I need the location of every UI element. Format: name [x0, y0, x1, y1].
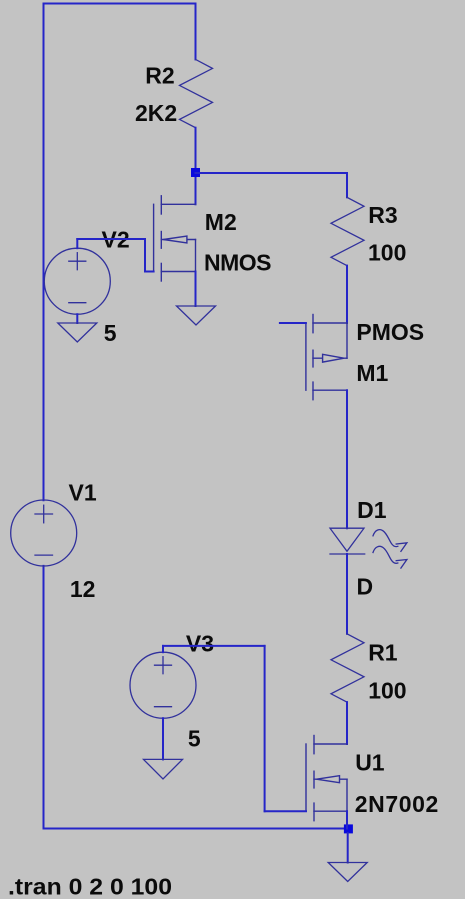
M1 source stub	[313, 322, 347, 324]
voltage source V3	[130, 652, 196, 718]
M1 channel segments	[312, 315, 314, 333]
svg-text:V1: V1	[69, 480, 97, 506]
ground under M2	[177, 306, 216, 325]
svg-text:PMOS: PMOS	[356, 319, 424, 345]
svg-text:U1: U1	[355, 749, 385, 775]
U1 source stub	[314, 810, 347, 812]
U1 body-source rail	[346, 779, 348, 811]
M2 drain stub	[161, 203, 195, 205]
svg-text:2K2: 2K2	[135, 100, 177, 126]
wire V3 top vertical	[162, 646, 164, 652]
voltage source V1	[11, 500, 77, 566]
svg-text:2N7002: 2N7002	[355, 791, 439, 817]
svg-text:100: 100	[368, 240, 406, 266]
svg-text:NMOS: NMOS	[204, 249, 272, 275]
wire V3 bottom to ground	[162, 718, 164, 759]
M2 channel segments	[160, 196, 162, 214]
svg-text:M2: M2	[205, 209, 237, 235]
U1 gate bar	[305, 744, 307, 811]
wire to U1 gate pin	[265, 810, 306, 812]
wire V3 gate drop vertical	[264, 646, 266, 811]
resistor R2	[180, 59, 213, 127]
svg-text:5: 5	[104, 320, 117, 346]
svg-text:D: D	[357, 574, 374, 600]
nmos M2	[154, 196, 196, 281]
wire V2 to gate horizontal	[77, 238, 145, 240]
ground under V2	[58, 323, 97, 342]
junction node square bottom	[344, 824, 353, 833]
U1 drain stub	[314, 743, 347, 745]
D1 cathode bar	[330, 553, 365, 555]
wire M1 drain to LED	[346, 390, 348, 528]
M1 drain stub	[313, 389, 347, 391]
wire R3 to M1 source	[346, 266, 348, 323]
svg-text:R3: R3	[368, 202, 397, 228]
svg-text:M1: M1	[356, 360, 388, 386]
wire bottom horizontal	[44, 828, 348, 830]
M2 gate bar	[153, 204, 155, 271]
ground bottom	[328, 863, 367, 882]
U1 channel segments	[313, 736, 315, 754]
ground under V3	[144, 759, 183, 779]
wire node to R3 horizontal	[196, 172, 348, 174]
wire node to bottom ground	[347, 833, 349, 863]
wire V2 top vertical	[76, 239, 78, 248]
svg-text:5: 5	[188, 726, 201, 752]
wire M1 gate stub	[280, 322, 306, 324]
wire V3 top horizontal	[163, 645, 265, 647]
M1 body stub with arrow	[313, 357, 347, 359]
svg-text:R1: R1	[368, 640, 398, 666]
M1 body-source rail	[346, 323, 348, 358]
wire M2 source to ground	[195, 272, 197, 307]
wire left rail lower (V1 to bottom)	[43, 566, 45, 829]
wire U1 source to node	[346, 811, 348, 828]
wire R3 top lead	[346, 173, 348, 197]
svg-text:R2: R2	[145, 62, 174, 88]
wire to M2 gate pin	[145, 271, 154, 273]
wire LED to R1	[346, 554, 348, 634]
svg-text:V3: V3	[186, 631, 214, 657]
resistor R3	[331, 197, 364, 265]
pmos M1	[306, 315, 347, 400]
M2 body stub with arrow	[161, 239, 195, 241]
LED D1	[330, 528, 407, 568]
D1 anode triangle	[330, 528, 364, 551]
voltage source V2	[44, 248, 110, 314]
wire V2 bottom to ground	[76, 314, 78, 323]
U1 body stub with arrow	[314, 778, 347, 780]
wire left rail upper (top to V1)	[43, 4, 45, 501]
svg-text:12: 12	[70, 576, 96, 602]
wire V2 gate drop vertical	[144, 239, 146, 272]
D1 light arrow 2	[373, 546, 407, 568]
svg-text:D1: D1	[357, 497, 387, 523]
svg-text:100: 100	[368, 677, 406, 703]
M2 body-source rail	[195, 240, 197, 272]
M2 source stub	[161, 271, 195, 273]
resistor R1	[331, 634, 364, 702]
nmos U1	[306, 736, 347, 821]
wire R2 top lead	[195, 4, 197, 60]
junction node square top	[191, 168, 200, 177]
wire R2 bottom lead to node	[195, 128, 197, 205]
M1 gate bar	[305, 323, 307, 390]
wire R1 to U1 drain	[346, 702, 348, 744]
wire top horizontal	[44, 3, 196, 5]
svg-text:.tran 0 2 0 100: .tran 0 2 0 100	[8, 874, 172, 899]
D1 light arrow 1	[373, 530, 407, 552]
